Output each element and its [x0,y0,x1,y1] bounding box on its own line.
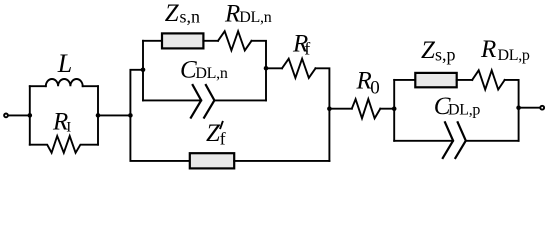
impedance Zsn box [162,33,203,48]
wire [98,114,130,116]
svg-text:DL,p: DL,p [448,102,480,119]
impedance Zf box [190,153,234,168]
wire [97,86,99,145]
node F [327,106,332,111]
wire [83,85,98,87]
resistor RDLp [472,70,505,89]
terminal left [4,114,8,118]
wire [142,41,144,101]
svg-text:R: R [480,36,496,63]
svg-text:L: L [57,49,72,78]
wire [394,140,453,142]
wire [266,67,282,69]
wire [143,99,201,101]
wire [394,79,415,81]
wire [316,68,330,161]
wire [30,85,46,87]
inductor L [46,79,83,86]
wire [214,99,266,101]
svg-text:f: f [220,128,226,148]
svg-text:I: I [66,119,71,135]
wire [252,41,267,101]
wire [130,115,189,160]
wire [9,114,30,116]
impedance Zsp box [415,73,456,87]
resistor Rf [282,59,316,78]
svg-text:f: f [304,39,310,59]
node D [141,68,146,73]
wire [329,108,351,110]
svg-text:Z: Z [165,0,180,27]
wire [393,80,395,141]
resistor RDLn [218,31,252,50]
wire [29,86,31,145]
capacitor CDLn [191,85,215,118]
svg-text:s,p: s,p [435,45,456,65]
prime mark of Zf [220,122,222,128]
node H [516,105,521,110]
wire [466,140,518,142]
svg-text:DL,p: DL,p [498,47,530,64]
resistor RI [30,136,98,153]
terminal right [540,106,544,110]
resistor R0 [352,99,381,118]
svg-text:0: 0 [370,78,380,99]
capacitor CDLp [443,122,466,158]
node A [28,113,33,118]
wire [234,160,329,162]
wire [380,108,394,110]
node B [96,113,101,118]
node C [128,113,133,118]
svg-text:DL,n: DL,n [195,65,227,82]
node E [264,66,269,71]
wire [505,80,519,141]
svg-text:Z: Z [421,37,436,64]
svg-text:R: R [224,0,240,27]
wire [457,79,473,81]
wire [130,70,143,116]
node G [392,106,397,111]
svg-text:s,n: s,n [180,7,201,27]
wire [203,40,218,42]
wire [143,40,162,42]
svg-text:DL,n: DL,n [239,9,271,26]
wire [519,107,540,109]
